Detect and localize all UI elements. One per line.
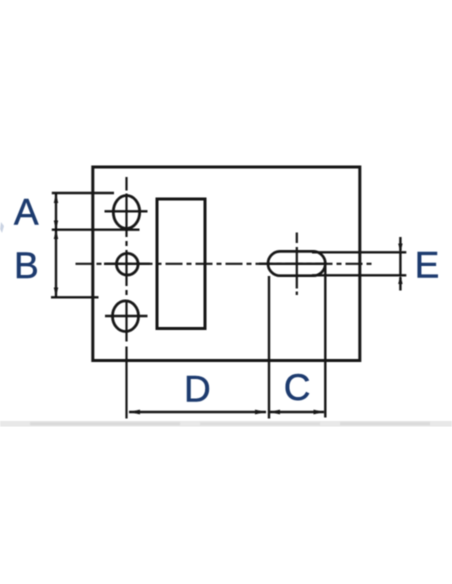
hole top [113,196,139,229]
svg-text:B: B [14,245,39,286]
svg-text:D: D [184,368,211,409]
arrowhead E up [398,275,402,284]
dimension line E vertical [399,237,401,291]
faint scan band [0,421,452,427]
extension line B bottom [51,296,99,298]
dimension line A-B vertical [55,194,57,297]
crosshair middle hole [104,263,150,265]
dimension line C [270,411,325,413]
hole middle [117,253,139,275]
extension vertical C left [268,276,270,419]
obround slot [268,251,325,275]
arrowhead A down / B up [54,221,58,240]
arrowhead D right [255,410,266,415]
arrowhead C right [314,410,325,415]
vertical centerline through holes [125,177,127,419]
crosshair obround [259,263,327,265]
dimension line D [129,411,266,413]
svg-text:C: C [284,367,311,408]
svg-text:E: E [415,244,440,285]
extension line A/B middle [52,228,140,230]
extension line E top [312,251,406,253]
obround vertical centerline [296,233,298,296]
extension line A top [52,192,114,194]
edge artifact [0,222,4,233]
crosshair bottom hole [105,315,148,317]
crosshair top hole [105,210,148,212]
arrowhead A up [54,194,58,204]
extension vertical C right [324,262,326,418]
extension line E bottom [312,274,406,276]
arrowhead B down [54,288,58,297]
svg-text:A: A [14,191,39,232]
slot rectangle [157,199,205,329]
arrowhead D left [129,410,140,415]
arrowhead C left [270,410,281,415]
arrowhead E down [398,244,402,253]
plate outline [93,167,360,361]
hole bottom [113,301,139,332]
horizontal centerline [76,263,373,265]
